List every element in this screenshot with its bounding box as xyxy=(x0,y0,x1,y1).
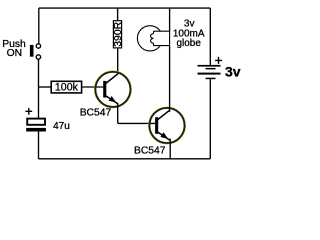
lamp LP1 base xyxy=(154,31,170,45)
pushbutton switch S1 top contact xyxy=(36,44,40,48)
wire Q1 emitter to Q2 base xyxy=(118,122,156,124)
svg-text:3v: 3v xyxy=(225,64,241,80)
svg-text:100k: 100k xyxy=(55,82,79,94)
wire battery bottom xyxy=(209,79,211,159)
svg-text:47u: 47u xyxy=(53,121,70,132)
resistor R2 390R xyxy=(113,21,121,48)
wire bottom rail xyxy=(39,158,211,160)
wire Q1 emitter down xyxy=(117,103,119,124)
pushbutton switch S1 actuator xyxy=(30,45,34,57)
svg-text:BC547: BC547 xyxy=(80,107,112,118)
transistor Q2 BC547 xyxy=(149,107,186,144)
capacitor C1 plus sign xyxy=(25,108,32,115)
wire branch to 100k xyxy=(39,86,52,88)
wire lamp top xyxy=(169,8,171,31)
wire capacitor to bottom rail xyxy=(38,132,40,159)
battery B1 plus sign xyxy=(215,57,222,64)
svg-text:390R: 390R xyxy=(113,21,124,46)
wire top rail xyxy=(39,7,211,9)
wire Q2 emitter down xyxy=(169,139,171,159)
wire left drop to switch xyxy=(38,8,40,43)
capacitor C1 bottom plate xyxy=(26,128,46,132)
svg-text:BC547: BC547 xyxy=(134,146,166,157)
pushbutton switch S1 bottom contact xyxy=(36,55,40,59)
capacitor C1 top plate xyxy=(27,119,45,125)
wire battery top xyxy=(209,8,211,65)
wire lamp to Q2 collector xyxy=(169,46,171,112)
battery B1 plates xyxy=(198,65,221,67)
svg-text:globe: globe xyxy=(176,38,201,49)
wire switch to capacitor xyxy=(38,59,40,118)
wire 390R to Q1 collector xyxy=(117,48,119,75)
wire 100k to Q1 base xyxy=(82,86,104,88)
svg-text:ON: ON xyxy=(7,48,22,59)
wire 390R top xyxy=(117,8,119,21)
transistor Q1 BC547 xyxy=(95,71,132,108)
lamp LP1 globe envelope xyxy=(137,26,162,51)
resistor R1 100k xyxy=(51,81,81,93)
lamp LP1 filament xyxy=(151,34,154,43)
